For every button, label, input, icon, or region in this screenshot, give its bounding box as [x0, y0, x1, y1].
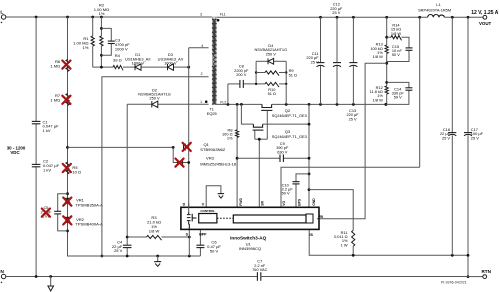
- node clamp junctions: [100, 66, 190, 69]
- wire secondary top rail: [217, 16, 483, 18]
- wire R8 FWD column: [236, 104, 238, 207]
- label C12: [330, 2, 343, 15]
- svg-text:SRP4020TA-1R5M: SRP4020TA-1R5M: [418, 7, 451, 12]
- svg-text:INN3996CQ: INN3996CQ: [239, 246, 261, 251]
- resistor R5 (not populated): [63, 162, 81, 175]
- label C13: [346, 108, 359, 121]
- svg-text:50 V: 50 V: [394, 95, 402, 100]
- U1 secondary bar: [233, 215, 306, 223]
- wire R3 line: [127, 236, 189, 238]
- wire drain vertical: [188, 48, 190, 208]
- svg-text:*: *: [1, 21, 3, 26]
- label U1 pin names bottom: [186, 215, 324, 237]
- capacitor C3: [108, 38, 130, 52]
- wire S pin lead: [188, 229, 190, 256]
- wire RTN stub: [468, 276, 483, 278]
- svg-text:SQJ464EP-T1_GE3: SQJ464EP-T1_GE3: [272, 113, 307, 118]
- capacitor C14: [392, 86, 413, 99]
- wire snubber drop: [285, 84, 287, 105]
- svg-text:InnoSwitch3-AQ: InnoSwitch3-AQ: [230, 235, 267, 240]
- svg-text:1/8 W: 1/8 W: [391, 31, 401, 36]
- svg-text:1000 V: 1000 V: [164, 61, 177, 66]
- wire Q3 branch: [241, 104, 309, 124]
- terminal L (input line): [0, 10, 5, 26]
- svg-text:25 V: 25 V: [311, 59, 319, 64]
- svg-text:1000 V: 1000 V: [132, 61, 145, 66]
- svg-text:1: 1: [200, 100, 202, 104]
- transistor Q1 (not populated): [183, 142, 226, 152]
- svg-text:250 V: 250 V: [266, 51, 277, 56]
- capacitor C17: [464, 17, 484, 276]
- wire U1 dashed link: [217, 217, 233, 219]
- svg-text:4: 4: [201, 44, 203, 48]
- svg-text:*: *: [1, 280, 3, 285]
- capacitor C5 (not populated): [41, 206, 62, 218]
- node T1 phase dot pin1: [205, 100, 208, 103]
- capacitor C12: [333, 17, 341, 104]
- node R2 stub top: [100, 27, 103, 30]
- wire R9 branch: [256, 72, 286, 74]
- svg-text:25 V: 25 V: [349, 116, 357, 121]
- wire R6/R7 column: [67, 17, 69, 256]
- wire divider column: [386, 17, 388, 104]
- diode D2: [138, 87, 171, 107]
- svg-text:VO: VO: [282, 201, 286, 206]
- transistor U1 internal MOSFET: [187, 213, 197, 230]
- svg-text:1/8 W: 1/8 W: [373, 97, 383, 102]
- svg-text:VR3: VR3: [206, 156, 215, 161]
- node Q1 gate: [172, 146, 175, 149]
- svg-text:12 V, 1.25 A: 12 V, 1.25 A: [471, 10, 499, 16]
- resistor R6 (not populated): [50, 59, 70, 72]
- node FWD C9 tap: [236, 157, 239, 160]
- svg-text:1 kV: 1 kV: [43, 168, 51, 173]
- svg-text:D: D: [183, 203, 186, 207]
- wire pin2 lead: [102, 77, 209, 256]
- svg-text:RTN: RTN: [481, 269, 491, 274]
- svg-text:FL1: FL1: [220, 13, 226, 17]
- svg-text:200 V: 200 V: [236, 72, 247, 77]
- svg-text:250 V: 250 V: [149, 96, 160, 101]
- svg-text:3: 3: [200, 12, 202, 16]
- resistor R10: [265, 82, 279, 96]
- svg-text:TPSMB400A-A: TPSMB400A-A: [75, 222, 103, 227]
- zener VR3 (not populated): [175, 156, 236, 167]
- wire primary ground bus: [68, 255, 201, 257]
- wire VO line: [281, 17, 420, 207]
- svg-text:10 Ω: 10 Ω: [72, 170, 81, 175]
- node C5 loop bottom: [66, 230, 69, 233]
- wire C3 parallel loop: [101, 28, 111, 55]
- svg-text:1%: 1%: [99, 11, 105, 16]
- node FL2 bus junctions: [227, 103, 388, 106]
- label T1 pins: [200, 12, 226, 104]
- terminal RTN: [481, 269, 491, 279]
- svg-text:25 V: 25 V: [442, 135, 450, 140]
- capacitor C1: [32, 119, 59, 133]
- wire R14 C15 branch: [387, 37, 409, 61]
- resistor R13: [370, 42, 388, 59]
- capacitor C7 (Y-cap): [252, 259, 267, 281]
- node pin2 on ground bus: [101, 255, 104, 258]
- svg-text:1 kV: 1 kV: [43, 128, 51, 133]
- svg-text:1 MΩ: 1 MΩ: [50, 64, 60, 69]
- capacitor C16: [440, 17, 456, 255]
- wire FL2 bus: [217, 103, 386, 105]
- wire C8 riser: [227, 84, 229, 105]
- node VR3 to drain: [187, 161, 190, 164]
- transformer T1 primary winding upper: [212, 19, 215, 54]
- svg-text:GND: GND: [312, 198, 316, 206]
- svg-text:VDC: VDC: [10, 150, 20, 155]
- node bottom rail junctions: [35, 275, 52, 278]
- wire pin4 lead: [189, 47, 209, 49]
- node T1 phase dot FL1: [217, 19, 220, 22]
- resistor R7 (not populated): [50, 93, 70, 106]
- svg-text:CONTROL: CONTROL: [200, 209, 215, 213]
- label C11: [306, 51, 319, 64]
- transformer T1 secondary winding: [214, 19, 217, 104]
- label T1 name: [207, 106, 217, 116]
- svg-text:2: 2: [201, 72, 203, 76]
- transistor Q2 SR FET: [261, 104, 307, 139]
- resistor R8: [222, 127, 239, 140]
- wire snubber risers: [256, 61, 286, 84]
- label 30-1200 VDC: [7, 145, 26, 155]
- node GND column junctions: [308, 123, 311, 191]
- svg-text:51 Ω: 51 Ω: [289, 73, 297, 78]
- svg-text:BPP: BPP: [199, 233, 207, 237]
- resistor R1: [73, 17, 94, 67]
- node R3 to S lead: [188, 236, 191, 239]
- wire top rail primary: [6, 16, 212, 18]
- svg-text:1 MΩ: 1 MΩ: [50, 98, 60, 103]
- ground primary bus: [154, 256, 161, 266]
- node snubber junctions: [255, 71, 287, 85]
- svg-text:25 V: 25 V: [471, 135, 479, 140]
- diode D1: [125, 52, 150, 70]
- svg-text:VOUT: VOUT: [479, 21, 492, 26]
- capacitor C15: [392, 44, 413, 57]
- svg-text:BPS: BPS: [297, 198, 301, 206]
- label PI number: [441, 280, 467, 284]
- transformer T1 core: [213, 17, 216, 105]
- node top rail junctions: [35, 16, 103, 19]
- wire D4 branch: [256, 60, 286, 62]
- wire VR3 branch: [173, 147, 189, 162]
- node secondary rail junctions: [319, 16, 469, 19]
- transistor Q3 SR FET: [253, 124, 307, 139]
- svg-text:SQJ464EP-T1_GE3: SQJ464EP-T1_GE3: [272, 134, 307, 139]
- node R2 stub bottom: [100, 54, 103, 57]
- U1 FB stub box: [306, 214, 313, 223]
- ground V pin: [218, 194, 224, 199]
- svg-text:EQ25: EQ25: [207, 111, 217, 116]
- svg-text:1/8 W: 1/8 W: [149, 228, 160, 233]
- resistor R3: [147, 215, 162, 240]
- svg-text:51 Ω: 51 Ω: [268, 91, 276, 96]
- svg-text:1000 V: 1000 V: [115, 47, 128, 52]
- zener VR2 (not populated): [63, 216, 103, 226]
- wire D pin entry: [188, 203, 190, 213]
- wire IS lead and RTN bus: [309, 229, 468, 255]
- node C5 loop top: [66, 192, 69, 195]
- wire C1/C2 input column: [35, 17, 37, 277]
- svg-text:50 V: 50 V: [210, 248, 219, 253]
- node RTN bus junctions: [352, 254, 454, 257]
- svg-text:L: L: [0, 10, 3, 16]
- wire C14 branch: [386, 82, 409, 104]
- svg-text:FL2: FL2: [220, 100, 226, 104]
- node bias R3/C4 tap: [126, 236, 129, 239]
- svg-text:1 W: 1 W: [341, 242, 348, 247]
- capacitor C9: [276, 141, 289, 162]
- wire SR gate bus: [255, 139, 267, 207]
- U1 CONTROL box: [199, 209, 217, 223]
- capacitor C6: [196, 240, 221, 254]
- wire bias column: [126, 104, 128, 256]
- resistor R14: [391, 23, 402, 41]
- wire pin1 lead / D2 line: [127, 103, 208, 105]
- capacitor C8: [234, 64, 249, 88]
- wire FB sense line: [317, 63, 387, 219]
- svg-text:50 V: 50 V: [282, 191, 290, 196]
- wire R11 to RTN bus: [352, 246, 354, 255]
- svg-text:FWD: FWD: [239, 198, 243, 206]
- ground input arrow: [48, 277, 54, 292]
- svg-text:IS: IS: [310, 233, 314, 237]
- resistor R2: [94, 2, 109, 67]
- svg-text:760 VAC: 760 VAC: [252, 267, 267, 272]
- svg-text:FB: FB: [318, 215, 323, 219]
- svg-text:N: N: [0, 269, 4, 275]
- capacitor C4: [112, 239, 132, 253]
- wire column to ground bus corner: [67, 255, 70, 258]
- svg-text:STB99A3N6Z: STB99A3N6Z: [200, 147, 225, 152]
- node C17 bus junctions: [467, 254, 470, 278]
- wire bottom rail left: [6, 276, 258, 278]
- terminal N (input neutral): [0, 269, 5, 285]
- svg-text:1%: 1%: [83, 45, 89, 50]
- transformer T1 primary winding lower: [212, 67, 215, 105]
- svg-text:1/8 W: 1/8 W: [373, 54, 383, 59]
- svg-text:TPSMB350A-A: TPSMB350A-A: [75, 202, 103, 207]
- capacitor C10: [282, 182, 300, 196]
- svg-text:39 Ω: 39 Ω: [113, 58, 122, 63]
- svg-text:PI-9246-042021: PI-9246-042021: [441, 280, 467, 284]
- resistor R4: [113, 53, 123, 70]
- node SR gate junction: [258, 138, 261, 141]
- diode D4: [254, 43, 287, 64]
- svg-text:50 V: 50 V: [392, 52, 400, 57]
- diode D3: [158, 52, 183, 70]
- wire BPP lead / C6: [199, 229, 201, 256]
- label U1 name: [230, 235, 267, 251]
- wire gate line: [68, 146, 174, 148]
- svg-text:630 V: 630 V: [277, 149, 288, 154]
- wire BPS C10 branch: [296, 174, 309, 207]
- svg-text:1%: 1%: [227, 136, 233, 141]
- wire snubber line: [228, 83, 286, 85]
- zener VR1 (not populated): [63, 198, 103, 208]
- capacitor C2: [32, 159, 60, 173]
- svg-text:MMSZ5245B-E3-18: MMSZ5245B-E3-18: [200, 161, 237, 166]
- node bus junctions: [126, 255, 191, 258]
- wire bottom rail right: [261, 276, 468, 278]
- resistor R12: [370, 85, 389, 102]
- node gate line tap: [66, 146, 69, 149]
- wire GND to R11: [309, 190, 353, 231]
- op-amp U1 InnoSwitch3-AQ body: [181, 207, 319, 229]
- resistor R11: [334, 230, 355, 247]
- wire C9 line: [237, 157, 309, 159]
- resistor R9: [265, 68, 297, 77]
- capacitor C11: [317, 17, 325, 104]
- inductor L1: [418, 2, 451, 17]
- node divider junctions: [385, 36, 389, 106]
- svg-text:SR: SR: [260, 201, 264, 206]
- terminal VOUT: [471, 10, 499, 26]
- capacitor C13: [349, 17, 357, 104]
- svg-text:25 V: 25 V: [332, 10, 340, 15]
- wire GND column: [308, 104, 310, 207]
- wire clamp output line: [93, 66, 189, 68]
- label U1 pin names top: [183, 198, 316, 207]
- svg-text:25 V: 25 V: [114, 248, 123, 253]
- wire V pin to ground: [206, 186, 221, 208]
- wire C5 branch loop: [58, 194, 68, 231]
